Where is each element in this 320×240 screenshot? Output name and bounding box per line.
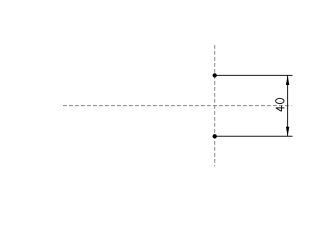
dimension text 40 (rotated, digit 4) [276, 106, 285, 112]
top extension line [215, 74, 293, 76]
top arrowhead [286, 75, 289, 85]
dimension line [287, 75, 289, 136]
node dot bottom [213, 134, 217, 138]
dimension text 40 (rotated, digit 0) [276, 98, 284, 103]
bottom arrowhead [286, 127, 289, 137]
node dot top [213, 73, 217, 77]
bottom extension line [215, 135, 293, 137]
vertical centerline [214, 45, 216, 166]
horizontal centerline [63, 105, 292, 107]
